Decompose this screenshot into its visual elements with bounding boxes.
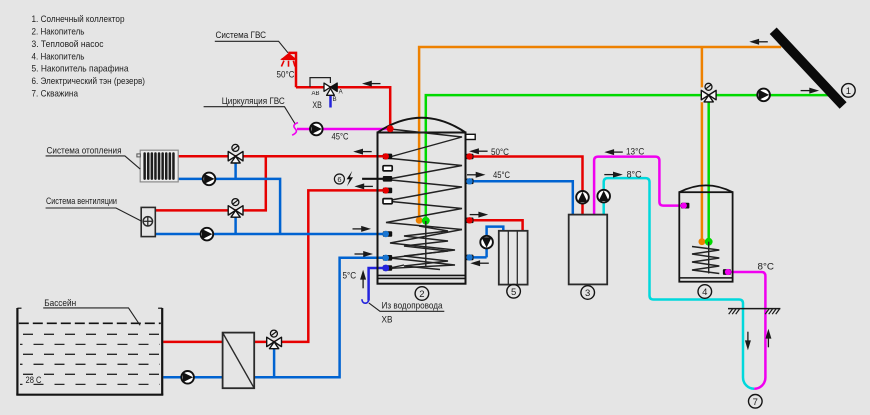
wire green collector return — [426, 95, 830, 221]
ventilation unit — [141, 207, 155, 236]
svg-text:2. Накопитель: 2. Накопитель — [32, 27, 85, 38]
label circled 4 — [698, 285, 712, 299]
wire red ventilation supply — [155, 156, 265, 210]
pump heat pump brine side — [597, 190, 610, 203]
wire red 50C tank 2 to heat pump — [470, 157, 583, 215]
arrow tank5 supply right — [470, 212, 489, 218]
wire cyan 8C heat pump to well — [604, 178, 754, 389]
tank 2 body — [378, 118, 466, 284]
wire orange collector supply — [419, 47, 781, 220]
wire red heating supply radiator to tank 2 — [178, 155, 384, 158]
arrow 45C right — [467, 172, 486, 178]
svg-text:13°C: 13°C — [626, 146, 644, 157]
tank 4 coil — [692, 242, 719, 274]
node green dip tube end tank 4 — [705, 238, 713, 246]
arrow well down — [745, 332, 751, 351]
svg-text:45°C: 45°C — [493, 170, 510, 181]
tank 2 left sensor pocket lower — [383, 199, 392, 204]
ground surface at well — [728, 309, 780, 315]
arrow well up — [765, 329, 771, 348]
tank 2 right stub 45C — [466, 178, 474, 184]
label circled 5 — [507, 285, 521, 299]
svg-text:6. Электрический тэн (резерв): 6. Электрический тэн (резерв) — [32, 76, 146, 87]
wire magenta 8C tank 4 to well — [727, 272, 765, 389]
pump solar loop — [757, 89, 770, 102]
wire red tank 5 charge — [470, 220, 523, 231]
shower symbol DHW — [281, 54, 295, 67]
tank 2 left stub cold inlet — [382, 265, 392, 272]
svg-text:5. Накопитель парафина: 5. Накопитель парафина — [32, 64, 130, 75]
tank 2 upper coil — [386, 129, 462, 230]
valve ventilation circuit V2 — [228, 199, 243, 218]
wire blue radiator return — [178, 179, 280, 234]
svg-text:7: 7 — [753, 397, 758, 408]
DHW mixing valve bypass loop — [310, 78, 330, 87]
tank 2 left sensor pocket upper — [383, 166, 392, 171]
wire red pool supply from tank 2 — [163, 190, 383, 342]
DHW mixing valve — [312, 83, 343, 103]
node red junction on tank 2 dome — [387, 125, 394, 132]
electric heater symbol circled 6 — [334, 174, 344, 184]
pool water level — [19, 322, 161, 324]
wire red DHW main to tank 2 — [296, 87, 390, 129]
svg-text:6: 6 — [337, 175, 341, 184]
tank 4 left stub 13C — [681, 203, 690, 209]
wire red DHW shower riser — [288, 53, 296, 87]
wire blue tank 5 loop — [470, 227, 504, 258]
wire blue common return to tank 2 — [155, 233, 383, 236]
valve heating circuit V1 — [228, 144, 243, 163]
tank 2 top-right safety stub — [466, 134, 475, 139]
electric heater connection line — [362, 178, 383, 180]
svg-text:8°C: 8°C — [758, 261, 775, 272]
svg-text:45°C: 45°C — [332, 131, 349, 142]
tank 2 left stub pool return — [383, 255, 393, 261]
svg-text:3. Тепловой насос: 3. Тепловой насос — [32, 39, 104, 50]
pool basin — [16, 308, 163, 395]
arrow DHW line left — [362, 81, 381, 87]
solar collector 1 — [773, 31, 843, 106]
svg-text:Система ГВС: Система ГВС — [216, 30, 267, 41]
arrow 8C right — [604, 172, 623, 178]
pump pool loop — [181, 371, 194, 384]
label Iz vodoprovoda — [369, 301, 445, 326]
node green dip tube end tank 2 — [422, 217, 430, 225]
pump heat pump hot side — [576, 191, 589, 204]
pump radiator return — [203, 173, 216, 186]
tank 2 left stub electric heater — [383, 176, 392, 182]
label Cirkulyaciya GVS — [204, 96, 295, 124]
svg-text:A: A — [339, 90, 343, 96]
label circled 7 — [749, 395, 763, 409]
tank 4 right stub 8C — [723, 269, 731, 275]
wire blue inlet break squiggle — [362, 299, 369, 303]
svg-text:5: 5 — [511, 287, 516, 298]
tank 2 left stub heating return — [383, 231, 393, 237]
tank 2 coil tail to cold inlet — [391, 265, 404, 268]
wire blue cold water inlet to tank 2 — [369, 268, 384, 301]
node orange dip tube end tank 4 — [699, 238, 706, 245]
wire blue valve V1 bypass drop — [234, 160, 237, 179]
arrow 50C left — [469, 148, 488, 154]
label circled 1 — [842, 84, 856, 98]
arrow pool return right — [355, 251, 374, 257]
tank 2 right stub tank5 supply — [466, 217, 474, 223]
label Sistema otopleniya — [46, 146, 141, 170]
wire magenta circulation break squiggle — [292, 123, 298, 136]
wire blue cold water at DHW valve — [329, 92, 332, 108]
arrow pool supply left — [354, 183, 373, 189]
valve solar circuit V4 — [701, 87, 717, 102]
label circled 3 — [581, 286, 595, 300]
label Sistema GVS — [215, 30, 288, 53]
paraffin tank 5 — [499, 231, 528, 285]
pump tank 5 loop — [480, 236, 493, 249]
arrow 13C left — [604, 149, 623, 155]
svg-text:Система отопления: Система отопления — [47, 146, 122, 157]
arrow cold inlet up — [360, 270, 366, 289]
svg-text:28 С: 28 С — [26, 375, 42, 386]
tank 2 left stub pool supply — [383, 187, 393, 193]
svg-text:Система вентиляции: Система вентиляции — [46, 196, 117, 207]
svg-text:B: B — [333, 97, 337, 103]
wire magenta DHW circulation — [297, 128, 390, 131]
arrow orange line left — [749, 39, 768, 45]
svg-text:ХВ: ХВ — [382, 315, 393, 326]
tank 4 body — [679, 185, 732, 281]
wire orange branch to tank 4 — [701, 47, 704, 242]
wire green valve branch to tank 4 — [707, 95, 710, 242]
valve pool circuit V3 — [267, 330, 282, 349]
arrow heating supply left — [353, 149, 372, 155]
svg-text:1: 1 — [846, 86, 851, 97]
legend text — [32, 14, 146, 99]
node orange dip tube end tank 2 — [416, 217, 423, 224]
svg-text:2: 2 — [419, 289, 424, 300]
svg-text:Из водопровода: Из водопровода — [382, 301, 444, 312]
tank 2 lower coil — [387, 221, 463, 270]
svg-text:ХВ: ХВ — [312, 100, 322, 111]
lightning bolt — [347, 171, 353, 186]
svg-text:4. Накопитель: 4. Накопитель — [32, 51, 85, 62]
label circled 2 — [415, 287, 429, 301]
svg-text:Бассейн: Бассейн — [44, 298, 76, 309]
pool heat exchanger — [223, 333, 255, 389]
wire magenta 13C heat pump to tank 4 — [594, 157, 684, 215]
tank 2 right stub 50C — [466, 153, 474, 159]
svg-text:1. Солнечный коллектор: 1. Солнечный коллектор — [32, 14, 125, 25]
arrow tank5 return left — [470, 260, 489, 266]
pump DHW circulation — [310, 123, 323, 136]
radiator heating system — [137, 150, 178, 182]
svg-text:3: 3 — [585, 288, 590, 299]
svg-text:8°C: 8°C — [627, 169, 642, 180]
svg-text:50°C: 50°C — [491, 147, 509, 158]
svg-text:5°C: 5°C — [343, 271, 357, 282]
pool water dashes — [20, 334, 160, 384]
svg-text:4: 4 — [702, 287, 707, 298]
heat pump box 3 — [569, 215, 608, 285]
wire blue valve V2 bypass drop — [234, 214, 237, 234]
svg-text:7. Скважина: 7. Скважина — [32, 88, 79, 99]
svg-text:Циркуляция ГВС: Циркуляция ГВС — [222, 96, 285, 107]
tank 2 right stub tank5 return — [466, 254, 474, 260]
label Bassein — [43, 298, 140, 326]
label Sistema ventilyacii — [46, 196, 142, 221]
svg-text:50°C: 50°C — [277, 70, 295, 81]
tank 2 left stub heating supply — [383, 153, 393, 159]
svg-text:AB: AB — [312, 91, 320, 97]
wire blue 45C tank 2 to heat pump — [470, 181, 573, 214]
wire blue pool valve drop — [273, 347, 276, 377]
wire blue pool return — [163, 258, 383, 378]
arrow heating return right — [353, 226, 372, 232]
radiator fins — [143, 152, 174, 180]
pump ventilation return — [201, 228, 214, 241]
arrow green line right — [801, 88, 820, 94]
